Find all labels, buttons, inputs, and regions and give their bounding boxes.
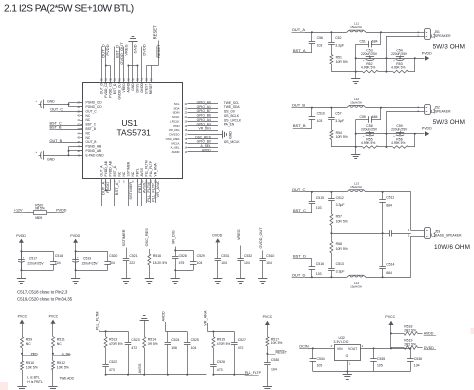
svg-text:C51: C51 <box>360 39 366 43</box>
resistor R510 10K 5% <box>21 361 24 370</box>
svg-text:C57: C57 <box>335 112 341 116</box>
svg-text:OUT_A: OUT_A <box>292 27 306 32</box>
svg-text:10W/6 OHM: 10W/6 OHM <box>434 244 470 251</box>
svg-text:BST_B: BST_B <box>86 127 97 131</box>
capacitor C532 104 <box>240 246 242 256</box>
capacitor C525 104 <box>187 332 189 340</box>
svg-text:PVDD_CD: PVDD_CD <box>104 81 108 97</box>
svg-text:US1: US1 <box>121 118 138 128</box>
inductor L12 15uH/3A <box>347 106 366 108</box>
svg-text:DCIN: DCIN <box>299 345 309 349</box>
svg-text:TAS5731: TAS5731 <box>117 128 152 138</box>
svg-text:OUT_C: OUT_C <box>50 107 63 111</box>
ground <box>71 278 80 280</box>
svg-text:BST_B: BST_B <box>293 123 306 128</box>
resistor R53 4.99K 5% <box>378 71 393 73</box>
svg-text:C513: C513 <box>336 262 344 266</box>
svg-text:684: 684 <box>386 203 392 207</box>
capacitor C516 103 <box>311 259 313 267</box>
capacitor C510 104 <box>262 251 264 256</box>
svg-text:0R 5%: 0R 5% <box>35 207 45 211</box>
svg-text:472: 472 <box>238 346 244 350</box>
wire OUT_D pin up <box>101 47 103 83</box>
svg-text:OUT_B: OUT_B <box>292 103 306 108</box>
wire U32 gnd pin <box>347 361 349 372</box>
svg-text:104: 104 <box>221 261 227 265</box>
wire MCLK right <box>188 143 219 145</box>
resistor R56 4.99K 5% <box>378 146 393 148</box>
wire OUT_C <box>61 111 83 113</box>
wire BST_A line <box>305 52 312 54</box>
ground <box>171 278 180 280</box>
wire SCLK right <box>188 117 219 119</box>
svg-text:103: 103 <box>317 44 323 48</box>
svg-text:105: 105 <box>317 364 323 368</box>
svg-text:C519,C520 close to Pin34,35: C519,C520 close to Pin34,35 <box>17 296 73 301</box>
svg-text:PVDD: PVDD <box>105 44 110 55</box>
ground channel <box>355 147 357 154</box>
svg-text:SSTIMER: SSTIMER <box>127 161 131 176</box>
svg-text:R516: R516 <box>153 254 161 258</box>
svg-text:BST_A: BST_A <box>114 182 119 195</box>
svg-text:I2S_MCLK: I2S_MCLK <box>224 140 241 144</box>
svg-text:PGND_CD: PGND_CD <box>86 101 103 105</box>
svg-text:GND: GND <box>47 157 55 161</box>
resistor R52 4.99K 5% <box>331 71 362 73</box>
svg-text:PA_EN: PA_EN <box>224 123 235 127</box>
resistor R512 10K 5% <box>52 361 55 370</box>
svg-text:PLL_FLTP: PLL_FLTP <box>245 371 262 375</box>
ground <box>145 278 154 280</box>
svg-text:470R 5%: 470R 5% <box>109 342 123 346</box>
svg-text:PVCC: PVCC <box>49 314 59 318</box>
svg-text:DVDD: DVDD <box>212 233 222 237</box>
capacitor C524 106 <box>167 332 169 340</box>
svg-text:C526: C526 <box>217 360 225 364</box>
svg-text:PVDD: PVDD <box>105 182 110 193</box>
wire OUT_B line <box>305 107 347 109</box>
svg-text:10R 5%: 10R 5% <box>336 247 348 251</box>
svg-text:PVCC: PVCC <box>385 315 395 319</box>
wire DCIN to VIN <box>308 348 335 350</box>
wire vrana rail <box>207 323 209 332</box>
svg-text:103: 103 <box>316 272 322 276</box>
svg-text:15uH/3A: 15uH/3A <box>350 285 362 289</box>
capacitor C514 684 <box>382 233 384 266</box>
wire VREG pin up <box>123 47 125 83</box>
svg-text:PBTL: PBTL <box>136 168 140 176</box>
svg-text:BASS_SPEAKER: BASS_SPEAKER <box>435 233 462 237</box>
svg-text:PLL_FLTM: PLL_FLTM <box>145 160 149 176</box>
svg-text:C519: C519 <box>83 257 91 261</box>
svg-text:3.3μF: 3.3μF <box>336 269 345 273</box>
capacitor CG2 to GND at PGND_AB <box>39 155 42 157</box>
capacitor C520 104 <box>107 255 109 261</box>
capacitor C529 104 <box>193 255 195 261</box>
svg-text:SPEAKER: SPEAKER <box>435 110 451 114</box>
ground <box>17 278 26 280</box>
svg-text:PVDD: PVDD <box>70 234 80 238</box>
svg-text:GND: GND <box>132 44 137 53</box>
capacitor C523 472 <box>128 331 130 339</box>
svg-text:VR_DIG: VR_DIG <box>171 230 175 244</box>
svg-text:RESET: RESET <box>276 351 288 355</box>
wire SSTIMER pin down <box>128 179 130 206</box>
svg-text:PVCC: PVCC <box>263 315 273 319</box>
wire ldo bottom rail <box>313 371 411 373</box>
svg-text:473: 473 <box>217 368 223 372</box>
svg-text:VR_ANA: VR_ANA <box>155 181 160 197</box>
svg-text:C517: C517 <box>29 257 37 261</box>
capacitor C535 105 <box>373 348 375 358</box>
capacitor C57 3.3uF <box>331 108 333 118</box>
svg-text:OSC_RES: OSC_RES <box>145 228 149 247</box>
capacitor C526 473 <box>213 348 215 361</box>
capacitor C530 104 <box>267 359 269 363</box>
svg-text:NC: NC <box>122 171 126 176</box>
svg-text:SSTIMER: SSTIMER <box>128 182 133 200</box>
capacitor C518 104 <box>53 255 55 261</box>
wire OUT_A pin down <box>101 179 103 206</box>
svg-text:PVDD: PVDD <box>422 127 432 131</box>
svg-text:AVDD: AVDD <box>172 150 180 154</box>
resistor R519 2R2 5% <box>391 347 404 349</box>
wire filter cap verticals <box>380 108 382 120</box>
svg-text:SPEAKER: SPEAKER <box>435 34 451 38</box>
wire PVDD rail <box>356 133 425 135</box>
svg-text:C510: C510 <box>317 112 325 116</box>
ground top AVSS <box>140 320 149 322</box>
svg-text:AVSS: AVSS <box>138 363 142 373</box>
svg-text:104: 104 <box>266 261 272 265</box>
svg-text:4.99K 5%: 4.99K 5% <box>391 141 405 145</box>
svg-text:220uF/25V: 220uF/25V <box>82 261 99 265</box>
svg-text:0R 5%: 0R 5% <box>148 342 158 346</box>
svg-text:C528: C528 <box>179 254 187 258</box>
svg-text:GND: GND <box>47 99 55 103</box>
wire avdd rail <box>165 322 167 332</box>
svg-text:C531: C531 <box>221 254 229 258</box>
svg-text:10R 5%: 10R 5% <box>336 60 348 64</box>
svg-text:0805: 0805 <box>35 216 43 220</box>
svg-text:104: 104 <box>191 346 197 350</box>
capacitor C52 3.3uF <box>331 32 333 42</box>
svg-text:C511: C511 <box>386 195 394 199</box>
wire PGND_CD to cap <box>44 104 69 106</box>
ground <box>263 386 272 388</box>
power PVDD arrow <box>425 131 429 136</box>
svg-text:473: 473 <box>109 368 115 372</box>
svg-text:PGND_AB: PGND_AB <box>86 145 103 149</box>
svg-text:NC: NC <box>86 131 91 135</box>
ground U32 <box>347 372 349 375</box>
svg-text:AVDD: AVDD <box>202 148 212 152</box>
svg-text:GND: GND <box>131 83 135 91</box>
capacitor mid coupling <box>383 233 390 235</box>
resistor R511 NC <box>52 337 55 348</box>
svg-text:2R2 5%: 2R2 5% <box>404 328 416 332</box>
svg-text:L is BTL: L is BTL <box>27 376 40 380</box>
svg-text:PLL_FLTM: PLL_FLTM <box>95 312 99 331</box>
wire pll rail top <box>99 330 101 333</box>
svg-text:222: 222 <box>129 261 135 265</box>
wire VR_ANA pin down <box>155 179 157 203</box>
svg-text:C510: C510 <box>266 254 274 258</box>
chip left pin stubs <box>80 102 83 104</box>
svg-text:BST_D: BST_D <box>293 254 306 259</box>
svg-text:NC: NC <box>26 342 31 346</box>
ground symbol top (inverted) <box>128 41 137 43</box>
svg-text:684: 684 <box>386 271 392 275</box>
svg-text:VIN: VIN <box>337 347 343 351</box>
svg-text:C514: C514 <box>386 262 394 266</box>
wire VR_DIG join <box>175 247 177 251</box>
resistor R57 10R 5% <box>331 207 333 214</box>
wire BST_D pin up <box>114 47 116 83</box>
svg-text:VOUT: VOUT <box>348 347 357 351</box>
inductor L13 15uH/3A <box>347 190 366 192</box>
svg-text:103: 103 <box>316 206 322 210</box>
capacitor C527 472 <box>234 332 236 340</box>
svg-text:NC: NC <box>86 118 91 122</box>
svg-text:AVDD: AVDD <box>162 311 166 322</box>
svg-text:NC: NC <box>57 342 62 346</box>
ground <box>121 278 130 280</box>
svg-text:OUT_C: OUT_C <box>292 187 306 192</box>
svg-text:+12V: +12V <box>14 208 23 212</box>
capacitor C515 103 <box>311 192 313 201</box>
svg-text:104: 104 <box>271 367 277 371</box>
wire VOUT line <box>360 348 391 350</box>
ground <box>258 278 267 280</box>
svg-text:10R 5%: 10R 5% <box>336 135 348 139</box>
wire GVDD_OUT pin up <box>119 47 121 83</box>
wire AGND GND DVSS pins join <box>128 66 130 83</box>
wire LRCLK right <box>188 121 219 123</box>
svg-text:2.1 I2S PA(2*5W SE+10W BTL): 2.1 I2S PA(2*5W SE+10W BTL) <box>4 4 134 15</box>
svg-text:104: 104 <box>197 261 203 265</box>
svg-text:E-PAD GND: E-PAD GND <box>86 153 105 157</box>
svg-text:PVDD_AB: PVDD_AB <box>109 160 113 176</box>
ground symbol right of DVSSO <box>222 130 224 138</box>
wire RESET net up <box>158 41 160 66</box>
svg-text:NC: NC <box>86 114 91 118</box>
svg-text:C532: C532 <box>244 254 252 258</box>
resistor R51 10R 5% <box>330 55 333 65</box>
svg-text:104: 104 <box>244 261 250 265</box>
resistor R513 470R 5% <box>105 331 107 336</box>
svg-text:15uH/3A: 15uH/3A <box>350 100 362 104</box>
svg-text:10K 5%: 10K 5% <box>57 366 69 370</box>
capacitor CG1 to GND at PGND_CD <box>39 104 42 106</box>
svg-text:C55: C55 <box>360 115 366 119</box>
svg-text:BST_C: BST_C <box>86 123 97 127</box>
svg-text:RESET: RESET <box>149 83 153 94</box>
svg-text:H is PBTL: H is PBTL <box>27 380 43 384</box>
capacitor C511 684 <box>382 192 384 200</box>
svg-text:BST_A: BST_A <box>293 48 306 53</box>
resistor R515 470R 5% <box>213 332 215 337</box>
wire DVSSO right <box>188 134 223 136</box>
svg-text:C527: C527 <box>238 338 246 342</box>
svg-text:15uH/3A: 15uH/3A <box>350 25 362 29</box>
svg-text:VREG: VREG <box>123 44 128 55</box>
svg-text:GND: GND <box>229 131 233 139</box>
wire speaker return <box>386 36 388 72</box>
svg-text:C52: C52 <box>335 36 341 40</box>
svg-text:C512: C512 <box>336 196 344 200</box>
wire AVSS bottom rail <box>106 374 207 376</box>
capacitor C531 104 <box>217 255 219 258</box>
svg-text:OUT_C: OUT_C <box>86 109 98 113</box>
svg-text:C535: C535 <box>377 357 385 361</box>
svg-text:DVDD: DVDD <box>140 83 144 93</box>
svg-text:VR_ANA: VR_ANA <box>154 163 158 177</box>
svg-text:220uF/25V: 220uF/25V <box>361 127 378 131</box>
svg-text:10K 5%: 10K 5% <box>271 341 283 345</box>
svg-text:VR_DIG: VR_DIG <box>199 127 212 131</box>
wire BST_C <box>60 125 83 127</box>
capacitor C521 222 <box>126 248 128 256</box>
svg-text:PVDD_CD: PVDD_CD <box>109 81 113 97</box>
power PVDD arrow <box>425 56 429 61</box>
svg-text:R513: R513 <box>109 337 117 341</box>
svg-text:VREG: VREG <box>122 83 126 93</box>
svg-text:C529: C529 <box>197 254 205 258</box>
svg-text:3.3μF: 3.3μF <box>335 119 344 123</box>
svg-text:684: 684 <box>372 39 378 43</box>
svg-text:104: 104 <box>109 261 115 265</box>
wire BST_C line btl <box>305 212 312 214</box>
resistor R59 NC <box>21 337 24 348</box>
wire AVSS pin down <box>141 179 143 206</box>
wire PDN right <box>188 125 219 127</box>
svg-text:C525: C525 <box>191 338 199 342</box>
wire PLL_FLTM pin down <box>146 179 148 203</box>
svg-text:R58: R58 <box>336 242 342 246</box>
wire A_SEL right <box>188 147 219 149</box>
svg-text:475: 475 <box>179 261 185 265</box>
svg-text:103: 103 <box>317 119 323 123</box>
svg-text:PVDD: PVDD <box>422 51 432 55</box>
capacitor C534 105 <box>312 348 314 358</box>
svg-text:GVDD_OUT: GVDD_OUT <box>118 81 122 99</box>
wire OUT_A line <box>305 32 347 34</box>
svg-text:C517,C518 close to Pin2,3: C517,C518 close to Pin2,3 <box>17 289 68 294</box>
svg-text:220uF/25V: 220uF/25V <box>391 127 408 131</box>
wire BST_D line <box>305 258 312 260</box>
svg-text:GVDD_OUT: GVDD_OUT <box>259 227 263 249</box>
svg-text:AVDD: AVDD <box>424 332 434 336</box>
wire PLL_FLTP pin down <box>150 179 152 203</box>
ground <box>48 386 57 388</box>
svg-text:4.99K 5%: 4.99K 5% <box>391 66 405 70</box>
IC US1 TAS5731 class-D amplifier <box>83 83 183 179</box>
svg-text:OUT_D: OUT_D <box>100 82 104 94</box>
inductor L14 15uH/3A <box>347 275 366 277</box>
svg-text:684: 684 <box>372 115 378 119</box>
svg-text:220uF/25V: 220uF/25V <box>27 261 44 265</box>
svg-text:OUT_B: OUT_B <box>86 140 98 144</box>
wire BST_A pin down <box>114 179 116 206</box>
resistor R516 18.2K 5% <box>149 249 151 254</box>
svg-text:C536: C536 <box>414 357 422 361</box>
svg-text:PVDD_AB: PVDD_AB <box>104 160 108 176</box>
capacitor C512 3.3uF <box>331 192 333 198</box>
svg-text:R511: R511 <box>57 337 65 341</box>
svg-text:R514: R514 <box>148 337 156 341</box>
capacitor C519 220uF/25V <box>75 250 77 252</box>
svg-text:3.3V LDO: 3.3V LDO <box>334 340 349 344</box>
svg-text:PGND_CD: PGND_CD <box>86 105 103 109</box>
ground <box>213 278 222 280</box>
svg-text:PLL_FLTP: PLL_FLTP <box>149 160 153 176</box>
resistor R54 10R 5% <box>330 130 333 140</box>
svg-text:TWE ADD: TWE ADD <box>59 376 74 380</box>
capacitor C55 684 film <box>356 119 369 121</box>
svg-text:DVSS: DVSS <box>136 83 140 93</box>
ground <box>236 278 245 280</box>
svg-text:R59: R59 <box>26 337 32 341</box>
svg-text:104: 104 <box>55 261 61 265</box>
svg-text:C522: C522 <box>109 360 117 364</box>
ground <box>17 386 26 388</box>
resistor R518 2R2 5% <box>391 333 404 335</box>
resistor R58 10R 5% <box>330 241 333 253</box>
wire SDA right <box>188 108 219 110</box>
svg-text:C515: C515 <box>316 196 324 200</box>
capacitor C51 684 film <box>356 44 369 46</box>
svg-text:OUT_A: OUT_A <box>100 165 104 177</box>
svg-text:10R 5%: 10R 5% <box>336 220 348 224</box>
svg-text:C530: C530 <box>271 358 279 362</box>
ground channel <box>355 72 357 79</box>
svg-text:NC: NC <box>86 136 91 140</box>
wire mid line btl <box>331 233 382 235</box>
wire AVDD right <box>188 151 219 153</box>
wire STEST RESET join <box>146 66 148 83</box>
capacitor C513 3.3uF <box>331 262 333 268</box>
svg-text:PGND_AB: PGND_AB <box>86 149 103 153</box>
svg-text:3.3μF: 3.3μF <box>336 203 345 207</box>
svg-text:DVDD: DVDD <box>141 44 146 55</box>
capacitor C522 473 <box>105 348 107 361</box>
wire SCL right <box>188 103 219 105</box>
svg-text:PVDD: PVDD <box>16 234 26 238</box>
svg-text:C521: C521 <box>129 254 137 258</box>
svg-text:C534: C534 <box>317 357 325 361</box>
svg-text:PVDD: PVDD <box>56 208 67 212</box>
svg-text:5W/3 OHM: 5W/3 OHM <box>433 119 465 126</box>
svg-text:AGND: AGND <box>127 82 131 92</box>
svg-text:C524: C524 <box>171 338 179 342</box>
resistor R517 10K 5% <box>266 337 269 346</box>
svg-text:R515: R515 <box>217 337 225 341</box>
resistor R514 0R 5% <box>144 321 146 337</box>
svg-text:105: 105 <box>377 364 383 368</box>
svg-text:C520: C520 <box>109 254 117 258</box>
resistor R55 4.99K 5% <box>331 146 362 148</box>
wire DVDD pin up <box>141 47 143 83</box>
svg-text:10K 5%: 10K 5% <box>26 366 38 370</box>
svg-text:RESET: RESET <box>153 25 158 39</box>
wire OSC_RES right <box>188 138 219 140</box>
wire PVDD rail <box>356 58 425 60</box>
svg-text:R57: R57 <box>336 215 342 219</box>
svg-text:R510: R510 <box>26 361 34 365</box>
wire BST_B line <box>305 128 312 130</box>
svg-text:R512: R512 <box>57 361 65 365</box>
